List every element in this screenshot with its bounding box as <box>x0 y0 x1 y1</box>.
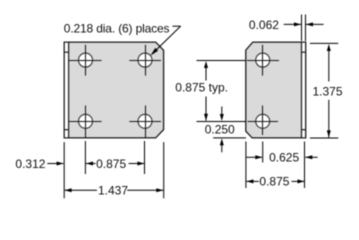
plate front view body <box>64 42 163 138</box>
svg-text:0.625: 0.625 <box>269 151 299 165</box>
hole H5 centerlines <box>247 45 279 76</box>
hole H1 top-left <box>79 53 93 67</box>
dim 1.437 arrows <box>65 188 164 192</box>
bend flange strip front view <box>64 42 68 138</box>
svg-text:0.312: 0.312 <box>15 157 45 171</box>
svg-text:0.875: 0.875 <box>96 157 126 171</box>
svg-text:0.062: 0.062 <box>249 18 279 32</box>
svg-text:0.218 dia. (6) places: 0.218 dia. (6) places <box>64 21 170 35</box>
left dims extension line hole col 2 <box>144 141 146 174</box>
svg-text:0.875 typ.: 0.875 typ. <box>175 80 228 94</box>
dim 0.062 arrows <box>284 22 324 26</box>
dim 0.625 arrows <box>246 155 317 159</box>
left dims extension line left edge <box>63 142 65 198</box>
hole H4 centerlines <box>129 106 161 139</box>
dim 1.375 extension lines <box>310 43 338 138</box>
hole H3 centerlines <box>69 106 102 139</box>
leader line to hole H2 <box>150 26 181 56</box>
right dims extension line hole col <box>262 142 264 163</box>
left dims extension line right edge <box>163 142 165 198</box>
hole H3 bottom-left <box>79 114 93 128</box>
dim 0.875 right arrows <box>246 179 304 183</box>
right dims extension line right edge <box>304 142 306 189</box>
hole H6 side bottom <box>256 114 270 128</box>
right dims extension line left edge <box>245 142 247 189</box>
hole H4 bottom-right <box>138 114 152 128</box>
left dims extension line hole col 1 <box>84 141 86 174</box>
thickness strip side view <box>302 42 306 138</box>
hole H6 centerlines <box>248 106 279 136</box>
dim 1.375 arrows <box>327 44 331 137</box>
dim 0.875 typ extension line bottom <box>197 121 246 123</box>
dim 0.875 left arrows <box>86 162 144 166</box>
svg-text:0.875: 0.875 <box>259 175 289 189</box>
svg-text:0.250: 0.250 <box>205 123 235 137</box>
dim 0.875 typ arrows <box>204 61 208 121</box>
hole H2 top-right <box>138 53 152 67</box>
hole H2 centerlines <box>129 45 161 76</box>
dim 0.250 arrows <box>220 107 224 153</box>
dim 0.062 extension lines <box>302 15 306 42</box>
hole H5 side top <box>256 53 270 67</box>
svg-text:1.375: 1.375 <box>313 85 343 99</box>
svg-text:1.437: 1.437 <box>98 183 128 197</box>
plate side view body <box>246 42 306 138</box>
dim 0.875 typ extension line top <box>197 60 246 62</box>
hole H1 centerlines <box>69 45 102 76</box>
dim 0.250 extension line bottom <box>213 137 246 139</box>
dim 0.312 arrow <box>47 162 63 166</box>
